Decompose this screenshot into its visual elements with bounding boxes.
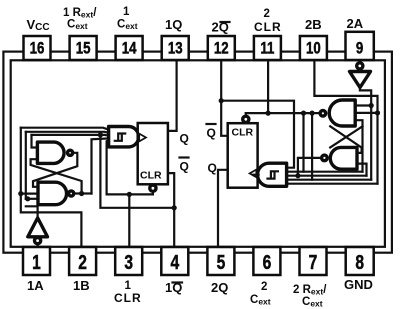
svg-text:GND: GND — [344, 277, 373, 292]
NAND gate 1 bottom (latch) — [38, 182, 67, 205]
pin 2 box — [69, 247, 96, 275]
gate1 hysteresis symbol — [115, 134, 125, 141]
pin 13 box — [162, 36, 189, 60]
wire: gate2 in3 line — [287, 175, 367, 177]
wire: rail113 branch to gate2 in4 — [311, 113, 313, 180]
svg-text:CLR: CLR — [140, 170, 162, 182]
wire: NAND1t in1 L-bend — [32, 135, 39, 148]
pin 4 box — [161, 247, 188, 275]
flip-flop U2 box — [228, 123, 258, 188]
svg-text:2 Rext/: 2 Rext/ — [293, 284, 327, 297]
inverter 1 triangle — [28, 218, 48, 237]
pin 9 box — [346, 32, 374, 60]
svg-text:6: 6 — [263, 251, 272, 273]
wire: vertical from rail2 to dot2 — [25, 132, 27, 199]
pin 16 box — [24, 36, 51, 60]
pin 7 box — [300, 247, 327, 275]
svg-text:Cext: Cext — [117, 19, 138, 32]
wire: rail1 B-net to gate1 in1 — [21, 128, 109, 130]
wire: NAND1t output loop cross diagonal B — [33, 153, 77, 187]
svg-text:16: 16 — [30, 39, 45, 58]
svg-text:Q: Q — [207, 126, 216, 140]
junction dot — [98, 132, 103, 137]
FF1 Q-bar overbar — [180, 156, 189, 158]
wire: latch out up to gate1 in4 — [92, 138, 109, 193]
pin 1 box — [23, 247, 50, 275]
gate1 output tip — [139, 136, 144, 138]
flip-flop U1 box — [138, 123, 168, 184]
svg-text:Cext: Cext — [250, 294, 271, 307]
svg-text:1: 1 — [32, 251, 41, 273]
wire: dot1 stub into NAND1b in1 — [21, 193, 39, 195]
FF2 clock triangle — [250, 170, 257, 178]
FF1 clear bubble — [150, 185, 156, 191]
wire: gate2 in4 line — [287, 179, 372, 181]
NAND2b output bubble — [322, 155, 328, 161]
svg-text:Q: Q — [180, 132, 189, 146]
outer package outline — [3, 52, 392, 253]
junction dot — [310, 111, 315, 116]
junction dot — [295, 173, 300, 178]
svg-text:2B: 2B — [305, 17, 322, 32]
inverter 2 bubble — [357, 63, 363, 69]
junction dot — [266, 111, 271, 116]
svg-text:10: 10 — [306, 39, 321, 58]
wire: NAND2b output to gate2 in3 — [298, 158, 322, 176]
wire: dot2 stub into NAND1b in2 — [26, 198, 39, 200]
svg-text:3: 3 — [124, 251, 133, 273]
svg-text:8: 8 — [355, 251, 364, 273]
pin 11 box — [254, 36, 281, 60]
svg-text:15: 15 — [76, 39, 91, 58]
wire: FF1 Q-bar out to pin4 — [168, 173, 174, 247]
wire: rail 2Q-bar feedback to gate2 in1 — [221, 101, 294, 168]
wire: FF2 clear bubble stub — [245, 113, 247, 116]
inverter 1 bubble — [35, 238, 41, 244]
svg-text:1: 1 — [123, 6, 130, 18]
pin 12 box — [208, 36, 235, 60]
NAND2t output bubble — [320, 111, 326, 117]
overbar for 2Q — [221, 21, 230, 23]
FF2 Q-bar overbar — [207, 123, 216, 125]
overbar for 1Q — [173, 281, 183, 283]
svg-text:CLR: CLR — [232, 127, 254, 139]
svg-text:9: 9 — [356, 39, 363, 58]
svg-text:1A: 1A — [27, 278, 44, 293]
svg-text:12: 12 — [214, 39, 229, 58]
junction dot — [369, 103, 374, 108]
NAND gate 2 top (latch, mirrored) — [329, 100, 355, 126]
svg-text:2A: 2A — [347, 16, 364, 31]
svg-text:7: 7 — [309, 251, 318, 273]
pin 14 box — [116, 36, 143, 60]
wire: FF1 Q out to pin13 — [168, 60, 177, 131]
wire: gate2 in2 line — [287, 171, 363, 173]
pin 8 box — [346, 247, 374, 275]
wire: NAND1t in2 into cross diagonal A — [31, 159, 82, 193]
pin 3 box — [115, 247, 142, 275]
FF1 clock triangle — [139, 134, 146, 142]
svg-text:1Q: 1Q — [165, 17, 182, 32]
svg-text:14: 14 — [122, 39, 137, 58]
FF2 clear bubble — [243, 116, 249, 122]
junction dot — [25, 196, 30, 201]
wire: cross diagonal A2 — [330, 126, 362, 147]
junction dot — [79, 191, 84, 196]
svg-text:2: 2 — [264, 8, 270, 20]
NAND1b output bubble — [69, 191, 74, 196]
wire: pin9 stub to inverter2 bubble — [359, 60, 361, 63]
svg-text:4: 4 — [170, 251, 179, 273]
svg-text:2: 2 — [261, 281, 267, 293]
Schmitt AND gate 2 (mirrored) — [258, 163, 287, 186]
junction dot — [301, 111, 306, 116]
wire: pin12 vertical to FF2 Q-bar — [221, 60, 228, 136]
wire: bundle line5 — [287, 183, 378, 185]
wire: vert362 cross stub to NAND2t in3 — [355, 120, 362, 172]
pin 6 box — [253, 247, 280, 275]
svg-text:Q: Q — [208, 161, 217, 175]
wire: inverter1 output to dot2 — [26, 206, 38, 218]
wire: NAND1b output line — [74, 192, 92, 194]
wire: cross diagonal B2 to NAND2b in1 — [330, 126, 361, 153]
junction dot — [172, 205, 177, 210]
wire: FF2 Q out to pin5 — [218, 170, 228, 247]
svg-text:Q: Q — [180, 160, 189, 174]
svg-text:11: 11 — [260, 39, 274, 58]
wire: vert371 latch to bundle — [355, 106, 371, 180]
junction dot — [219, 98, 224, 103]
NAND1t output bubble — [68, 150, 73, 155]
svg-text:5: 5 — [217, 251, 226, 273]
wire: rail2 to gate1 in2 — [26, 132, 109, 133]
pin 5 box — [207, 247, 234, 275]
NAND gate 2 bottom (latch, mirrored) — [330, 147, 357, 169]
svg-text:CLR: CLR — [254, 20, 282, 34]
wire: vert366 stub to NAND2b in2 — [357, 164, 366, 176]
inverter1 stub to pin1 — [36, 244, 38, 247]
wire: CLR2 rail to latch2 bubble — [246, 112, 320, 114]
wire: in3 line to gate1 — [32, 134, 109, 137]
wire: vert377 to NAND2t in2 — [355, 113, 377, 184]
svg-text:CLR: CLR — [114, 291, 142, 305]
gate2 hysteresis symbol — [268, 171, 278, 178]
NAND gate 1 top (latch) — [37, 142, 64, 163]
gate2 output tip — [253, 174, 258, 176]
svg-text:2Q: 2Q — [211, 280, 228, 295]
pin 10 box — [300, 36, 327, 60]
wire: CLR net vertical to gate1 — [107, 140, 109, 194]
wire: CLR net horizontal pin3 to FF1 clear bubble — [107, 191, 153, 194]
wire: left vertical B-net — [21, 128, 82, 247]
wire: inverter2 output route — [360, 87, 371, 106]
wire: pin11 vertical — [267, 60, 269, 113]
junction dot — [375, 110, 380, 115]
inverter 2 triangle — [350, 72, 371, 88]
pin 15 box — [70, 36, 97, 60]
wire: rail113 branch to gate2 in2 — [302, 113, 304, 172]
Schmitt AND gate 1 — [109, 127, 139, 147]
svg-text:Cext: Cext — [302, 296, 323, 309]
svg-text:Cext: Cext — [67, 19, 88, 32]
svg-text:13: 13 — [168, 39, 183, 58]
chip body outline — [11, 60, 385, 247]
svg-text:2: 2 — [78, 251, 87, 273]
wire: Q-bar feedback from pin4 column to gate1 in3 — [100, 135, 174, 208]
junction dot — [18, 191, 23, 196]
junction dot — [127, 192, 132, 197]
svg-text:1B: 1B — [73, 278, 90, 293]
wire: pin10 route — [314, 60, 377, 113]
wire: pin3 vertical — [128, 194, 130, 247]
